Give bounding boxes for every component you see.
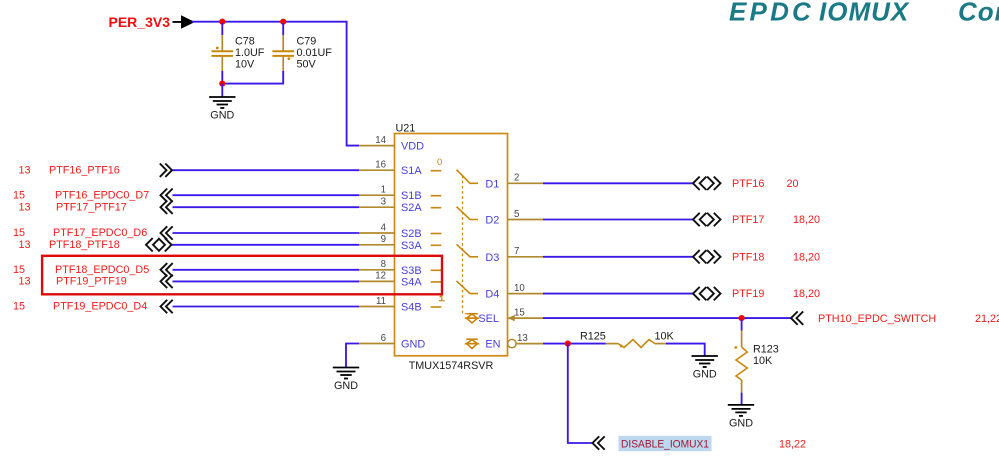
pin 10 D4: [485, 283, 543, 301]
svg-text:TMUX1574RSVR: TMUX1574RSVR: [409, 360, 494, 372]
svg-text:6: 6: [381, 333, 386, 344]
svg-text:DISABLE_IOMUX1: DISABLE_IOMUX1: [621, 439, 709, 451]
switch arm 1: [457, 170, 479, 184]
svg-text:IOMUX: IOMUX: [819, 0, 910, 27]
wire capacitor bottoms: [222, 71, 283, 84]
svg-text:S3B: S3B: [401, 265, 422, 277]
svg-text:S4A: S4A: [401, 276, 422, 288]
wire R123 to ground: [741, 393, 743, 405]
junction C79 top: [280, 19, 286, 25]
svg-text:GND: GND: [693, 369, 717, 381]
svg-text:R125: R125: [580, 331, 606, 343]
pin 11 S4B: [359, 296, 421, 314]
svg-text:PTF18_EPDC0_D5: PTF18_EPDC0_D5: [55, 264, 149, 276]
wire EN net: [543, 343, 606, 345]
svg-text:PTF16_EPDC0_D7: PTF16_EPDC0_D7: [55, 189, 149, 201]
svg-text:10V: 10V: [235, 59, 255, 71]
pin 5 D2: [485, 209, 543, 227]
svg-text:15: 15: [13, 227, 25, 239]
port bidir PTF19: [693, 287, 820, 300]
svg-text:PTH10_EPDC_SWITCH: PTH10_EPDC_SWITCH: [818, 313, 936, 325]
svg-text:D1: D1: [485, 178, 499, 190]
svg-text:18,22: 18,22: [779, 439, 806, 451]
svg-text:PTF19_EPDC0_D4: PTF19_EPDC0_D4: [53, 301, 147, 313]
svg-text:4: 4: [381, 222, 387, 233]
wire to cap ground: [221, 84, 223, 97]
svg-text:13: 13: [19, 239, 31, 251]
svg-text:R123: R123: [753, 344, 779, 356]
port bidir PTF18_PTF18: [19, 238, 172, 251]
wire net PTF18: [543, 256, 693, 258]
power flag PER_3V3: [109, 14, 193, 30]
port in PTF16_EPDC0_D7: [13, 189, 173, 202]
svg-text:C79: C79: [297, 36, 317, 48]
capacitor C79: [272, 23, 332, 71]
wire net PTF17: [543, 219, 693, 221]
junction C78 top: [219, 19, 225, 25]
pin 6 GND: [359, 333, 425, 351]
svg-text:D4: D4: [485, 289, 499, 301]
svg-text:PTF19_PTF19: PTF19_PTF19: [56, 276, 127, 288]
resistor R123 10K: [734, 320, 778, 393]
wire PER_3V3 rail to VDD: [192, 22, 359, 146]
svg-text:VDD: VDD: [401, 141, 424, 153]
dashed control line to SEL: [463, 176, 467, 314]
junction EN net: [565, 341, 571, 347]
junction C78 bottom: [219, 81, 225, 87]
port out PTF16_PTF16: [19, 164, 173, 177]
ground GND capacitors: [209, 97, 235, 122]
ground GND U21: [333, 368, 359, 393]
svg-text:D2: D2: [485, 215, 499, 227]
wire net PTF19_PTF19: [173, 280, 360, 282]
port bidir PTF18: [693, 250, 820, 263]
svg-text:PTF19: PTF19: [732, 288, 764, 300]
junction R123 top: [739, 315, 745, 321]
svg-text:10K: 10K: [655, 331, 675, 343]
svg-text:GND: GND: [401, 339, 425, 351]
svg-text:PER_3V3: PER_3V3: [109, 14, 171, 30]
svg-text:13: 13: [19, 201, 31, 213]
svg-text:1.0UF: 1.0UF: [235, 47, 265, 59]
svg-text:D3: D3: [485, 252, 499, 264]
svg-text:SEL: SEL: [478, 313, 499, 325]
svg-text:12: 12: [375, 271, 386, 282]
switch source contact dashes: [431, 171, 442, 307]
svg-text:16: 16: [375, 160, 386, 171]
ground GND R125: [692, 356, 718, 381]
svg-text:EPDC: EPDC: [729, 0, 814, 27]
wire net PTF16_EPDC0_D7: [173, 194, 360, 196]
svg-text:15: 15: [13, 264, 25, 276]
pin 12 S4A: [359, 271, 422, 289]
title EPDC IOMUX Configuration: [729, 0, 999, 27]
svg-text:S1A: S1A: [401, 165, 422, 177]
svg-text:S4B: S4B: [401, 302, 422, 314]
pin 7 D3: [485, 246, 543, 264]
wire net PTF17_EPDC0_D6: [173, 232, 360, 234]
svg-text:10K: 10K: [753, 355, 773, 367]
port in PTF18_EPDC0_D5: [13, 263, 173, 276]
port in PTF17_EPDC0_D6: [13, 226, 173, 239]
svg-text:9: 9: [381, 234, 386, 245]
pin 8 S3B: [359, 259, 421, 277]
switch position label 1: [439, 295, 445, 300]
svg-text:20: 20: [787, 178, 799, 190]
svg-text:7: 7: [514, 246, 519, 257]
svg-text:8: 8: [381, 259, 386, 270]
svg-text:S2B: S2B: [401, 228, 422, 240]
wire net PTF16: [543, 182, 693, 184]
wire net PTF19_EPDC0_D4: [173, 306, 360, 308]
svg-text:18,20: 18,20: [793, 214, 820, 226]
svg-text:C78: C78: [235, 36, 255, 48]
port in PTF19_EPDC0_D4: [13, 300, 173, 313]
resistor R125 10K: [580, 331, 675, 348]
port in DISABLE_IOMUX1: [593, 436, 807, 451]
wire net DISABLE_IOMUX1: [568, 344, 592, 443]
wire GND pin 6: [346, 344, 359, 368]
pin 9 S3A: [359, 234, 422, 252]
svg-text:13: 13: [517, 333, 528, 344]
svg-text:PTF17_EPDC0_D6: PTF17_EPDC0_D6: [53, 227, 147, 239]
wire net PTF19: [543, 293, 693, 295]
svg-text:S1B: S1B: [401, 190, 422, 202]
wire net PTF16_PTF16: [173, 169, 360, 171]
svg-text:U21: U21: [396, 123, 416, 135]
capacitor C78: [212, 23, 265, 71]
wire net PTF18_PTF18: [172, 244, 360, 246]
svg-text:PTF18: PTF18: [732, 251, 764, 263]
svg-text:EN: EN: [485, 339, 500, 351]
svg-text:PTF16_PTF16: PTF16_PTF16: [49, 164, 120, 176]
ground GND R123: [728, 405, 754, 430]
port bidir PTF17: [693, 213, 820, 226]
svg-text:5: 5: [514, 209, 519, 220]
pin 2 D1: [485, 173, 543, 191]
svg-text:50V: 50V: [297, 59, 317, 71]
svg-text:13: 13: [19, 164, 31, 176]
IC U21 TMUX1574RSVR body: [395, 123, 508, 373]
svg-text:13: 13: [19, 276, 31, 288]
pin 16 S1A: [359, 160, 422, 178]
SEL input symbol: [466, 314, 477, 323]
svg-text:PTF16: PTF16: [732, 178, 764, 190]
svg-text:18,20: 18,20: [793, 288, 820, 300]
svg-text:S2A: S2A: [401, 202, 422, 214]
pin 15 SEL: [478, 307, 543, 325]
svg-text:GND: GND: [729, 417, 753, 429]
pin 4 S2B: [359, 222, 421, 240]
port in PTF19_PTF19: [19, 275, 173, 288]
svg-text:GND: GND: [210, 110, 234, 122]
svg-text:GND: GND: [334, 380, 358, 392]
port in PTH10_EPDC_SWITCH: [791, 311, 999, 325]
svg-text:0: 0: [437, 157, 442, 168]
port in PTF17_PTF17: [19, 201, 173, 214]
port bidir PTF16: [693, 177, 799, 190]
svg-text:11: 11: [376, 296, 386, 307]
svg-text:15: 15: [514, 307, 525, 318]
svg-text:Con: Con: [958, 0, 999, 27]
wire R125 to ground: [666, 344, 705, 356]
highlight rectangle red selection box: [42, 256, 442, 294]
svg-text:PTF17: PTF17: [732, 214, 764, 226]
svg-text:18,20: 18,20: [793, 251, 820, 263]
svg-text:2: 2: [514, 173, 519, 184]
svg-text:15: 15: [13, 189, 25, 201]
svg-text:15: 15: [13, 301, 25, 313]
switch arm 3: [457, 244, 479, 256]
switch arm 2: [457, 207, 479, 220]
svg-text:1: 1: [381, 185, 386, 196]
EN input symbol: [466, 339, 477, 348]
wire net PTH10_EPDC_SWITCH: [543, 317, 791, 319]
svg-text:3: 3: [381, 197, 386, 208]
svg-text:10: 10: [514, 283, 525, 294]
svg-text:PTF18_PTF18: PTF18_PTF18: [49, 239, 120, 251]
svg-text:PTF17_PTF17: PTF17_PTF17: [56, 201, 127, 213]
wire net PTF18_EPDC0_D5: [173, 269, 360, 271]
svg-text:0.01UF: 0.01UF: [297, 47, 333, 59]
wire net PTF17_PTF17: [173, 206, 360, 208]
pin 13 EN: [485, 333, 543, 351]
pin 3 S2A: [359, 197, 422, 215]
svg-text:14: 14: [375, 135, 386, 146]
pin 1 S1B: [359, 185, 421, 203]
switch arm 4: [457, 281, 479, 294]
pin 14 VDD: [359, 135, 424, 153]
svg-text:21,22: 21,22: [975, 313, 999, 325]
svg-text:S3A: S3A: [401, 240, 422, 252]
